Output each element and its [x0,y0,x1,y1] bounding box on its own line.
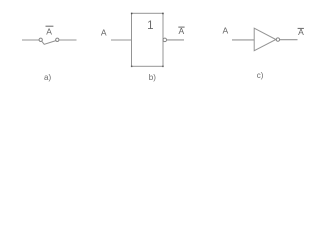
wire [22,39,39,41]
wire input [111,39,132,41]
gate body triangle [254,28,276,51]
wire output [280,39,298,41]
switch contact S (symbol a) [22,26,77,44]
net label A-bar [298,27,304,37]
svg-text:A: A [178,26,184,36]
svg-text:a): a) [44,73,51,82]
node left contact [39,38,42,41]
node right contact [56,38,59,41]
inversion bubble [163,38,167,42]
wire output [167,39,184,41]
svg-text:A: A [46,26,52,36]
svg-text:c): c) [257,71,264,80]
svg-text:b): b) [149,73,156,82]
switch blade [42,41,56,45]
IEC inverter gate U1 (symbol b) [101,13,185,67]
corner dots [131,13,164,67]
svg-text:A: A [222,26,228,36]
net label A-bar [46,26,54,36]
triangle inverter U2 (symbol c) [222,26,304,51]
inversion bubble [276,38,279,41]
wire [59,39,76,41]
svg-text:A: A [101,28,107,38]
gate body rectangle [132,13,164,66]
wire input [232,39,254,41]
svg-text:1: 1 [147,20,153,32]
net label A-bar [178,26,184,36]
